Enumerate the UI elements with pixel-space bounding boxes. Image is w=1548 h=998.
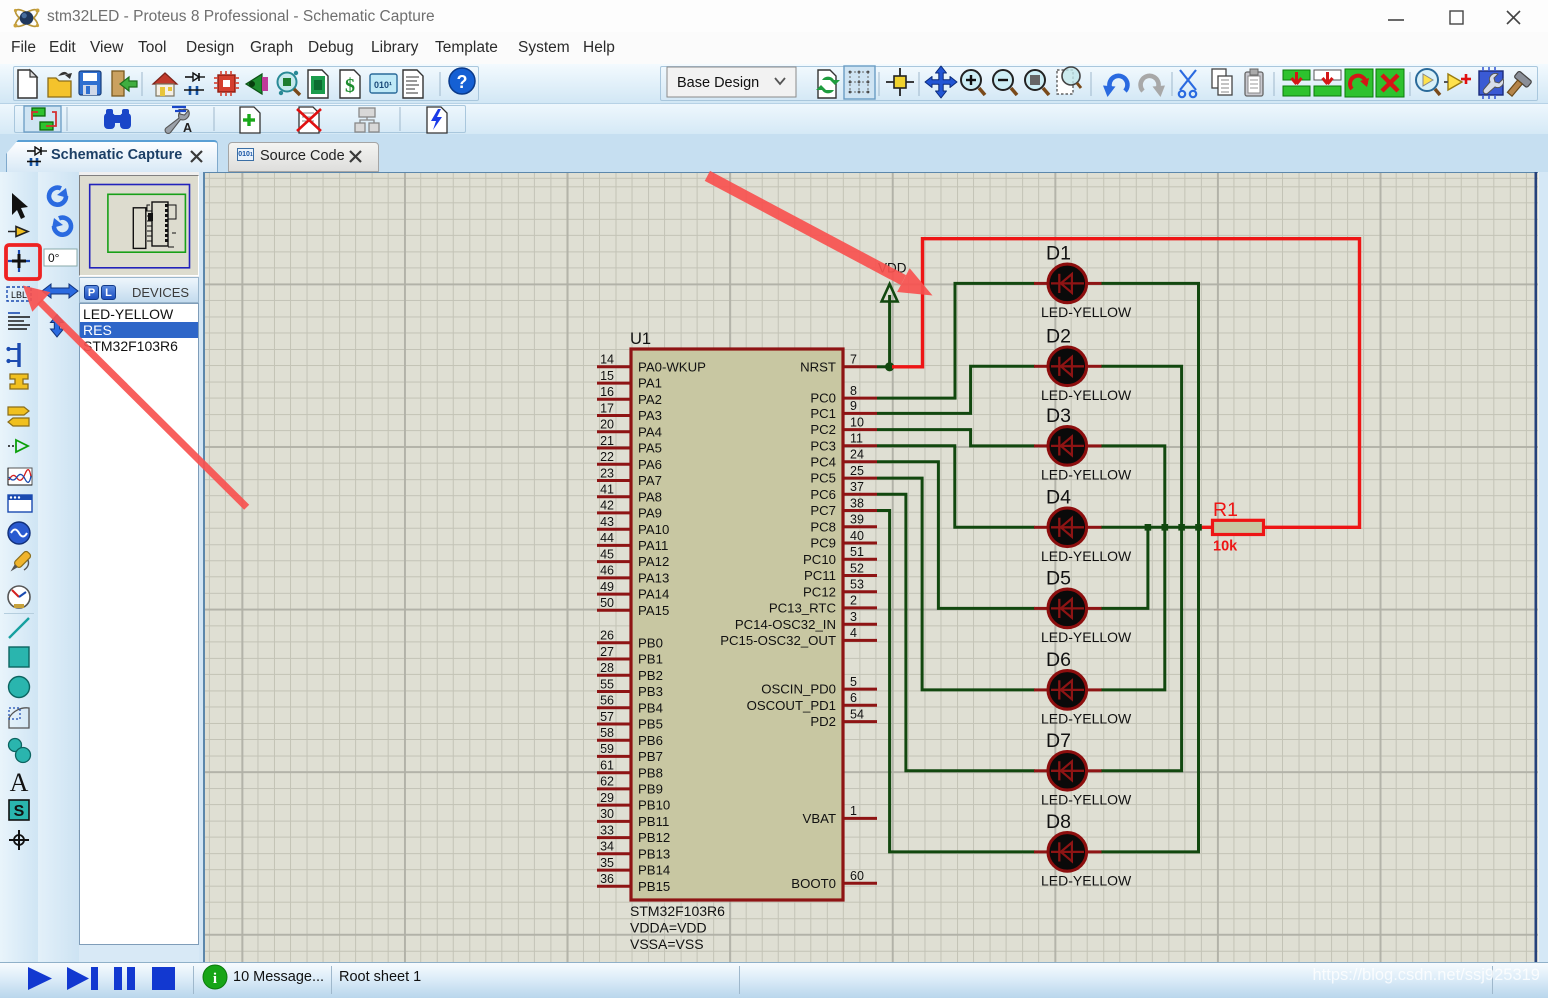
U1 pin PA2 (16): [597, 385, 662, 407]
wire D4 anode to R1 node row: [1101, 526, 1201, 529]
U1 pin PD2 (54): [810, 707, 877, 729]
preview window: [79, 175, 199, 276]
U1 pin PB1 (27): [597, 645, 663, 667]
left mode toolbar: [0, 172, 38, 962]
U1 pin NRST (7): [800, 353, 877, 375]
U1 pin PC3 (11): [810, 432, 877, 454]
U1 pin PA4 (20): [597, 418, 662, 440]
U1 pin PC8 (39): [810, 513, 877, 535]
LED D7 (LED-YELLOW): [1034, 730, 1132, 808]
junction node at x=1198.5: [1195, 524, 1202, 531]
U1 pin PB2 (28): [597, 661, 663, 683]
U1 pin PB14 (35): [597, 856, 670, 878]
resistor R1 10k: [1201, 499, 1264, 555]
power symbol VDD: [878, 261, 907, 367]
U1 pin PC9 (40): [810, 529, 877, 551]
wire D1-node: [1101, 283, 1199, 527]
U1 pin BOOT0 (60): [791, 869, 877, 891]
tab bar: [0, 134, 1548, 172]
U1 pin PB6 (58): [597, 726, 663, 748]
U1 pin PC10 (51): [803, 545, 877, 567]
U1 pin PA14 (49): [597, 580, 669, 602]
LED D3 (LED-YELLOW): [1034, 405, 1132, 483]
wire D7-node: [1101, 527, 1182, 771]
wire PC1-D2: [877, 366, 1035, 413]
U1 pin PA12 (45): [597, 547, 669, 569]
U1 pin PA15 (50): [597, 596, 669, 618]
window buttons: [1386, 8, 1536, 26]
toolbar2 icons: [0, 104, 500, 134]
U1 pin PB9 (62): [597, 775, 663, 797]
LED D5 (LED-YELLOW): [1034, 567, 1132, 645]
U1 pin PC15-OSC32_OUT (4): [720, 626, 877, 648]
red wire NRST node to R1 right terminal: [892, 239, 1360, 528]
U1 pin PC6 (37): [810, 480, 877, 502]
annotation arrow to junction tool: [23, 286, 249, 510]
sheet border right edge: [1535, 172, 1538, 962]
U1 pin PC7 (38): [810, 496, 877, 518]
toolbar row 1: [0, 64, 1548, 104]
orientation controls column: [38, 172, 79, 962]
U1 pin PC1 (9): [810, 399, 877, 421]
U1 pin PA10 (43): [597, 515, 669, 537]
U1 pin PC13_RTC (2): [769, 594, 877, 616]
wire PC2-D3: [877, 430, 1035, 446]
U1 pin PC11 (52): [804, 561, 877, 583]
U1 pin PA0-WKUP (14): [597, 353, 706, 375]
schematic canvas: [203, 172, 1538, 962]
LED D2 (LED-YELLOW): [1034, 325, 1132, 403]
U1 pin PC5 (25): [810, 464, 877, 486]
wire D2-node: [1101, 366, 1182, 527]
LED D8 (LED-YELLOW): [1034, 811, 1132, 889]
LED D4 (LED-YELLOW): [1034, 486, 1132, 564]
U1 pin PC2 (10): [810, 415, 877, 437]
U1 pin PB12 (33): [597, 823, 670, 845]
U1 pin PB10 (29): [597, 791, 670, 813]
wire D3-node: [1101, 446, 1165, 527]
U1 pin PA9 (42): [597, 499, 662, 521]
wire PC5-D6: [877, 478, 1035, 690]
menu bar: [0, 32, 1548, 64]
window top edge: [0, 0, 1548, 1]
wire PC6-D7: [877, 494, 1035, 771]
status bar: [0, 962, 1548, 998]
U1 pin PB15 (36): [597, 872, 670, 894]
U1 pin VBAT (1): [803, 804, 877, 826]
U1 pin PB4 (56): [597, 694, 663, 716]
U1 pin OSCIN_PD0 (5): [761, 675, 877, 697]
U1 pin PB5 (57): [597, 710, 663, 732]
toolbar1 icons: [0, 64, 1548, 104]
wire D6-node: [1101, 527, 1165, 690]
Base Design combo: [667, 67, 796, 97]
junction NRST/VDD node: [885, 362, 894, 371]
U1 pin OSCOUT_PD1 (6): [747, 691, 877, 713]
U1 pin PC0 (8): [810, 384, 877, 406]
wire PC0-D1: [877, 283, 1035, 398]
chip U1 STM32F103R6: [630, 330, 843, 952]
U1 pin PA7 (23): [597, 466, 662, 488]
U1 pin PA3 (17): [597, 401, 662, 423]
U1 pin PA11 (44): [597, 531, 668, 553]
wire PC7-D8: [877, 511, 1035, 852]
U1 pin PB8 (61): [597, 759, 663, 781]
U1 pin PA1 (15): [597, 369, 662, 391]
U1 pin PC14-OSC32_IN (3): [735, 610, 877, 632]
U1 pin PB11 (30): [597, 807, 669, 829]
annotation arrow to VDD junction: [705, 171, 933, 296]
wire PC3-D4: [877, 446, 1035, 528]
wire D8-node: [1101, 527, 1199, 852]
U1 pin PA5 (21): [597, 434, 662, 456]
U1 pin PC4 (24): [810, 448, 877, 470]
wire PC4-D5: [877, 462, 1035, 609]
junction node at x=1147.9: [1145, 524, 1152, 531]
U1 pin PA13 (46): [597, 564, 669, 586]
junction node at x=1164.8: [1162, 524, 1169, 531]
U1 pin PB13 (34): [597, 840, 670, 862]
wire NRST to VDD junction: [877, 365, 892, 368]
U1 pin PB0 (26): [597, 629, 663, 651]
red highlight box around junction-dot tool: [6, 245, 40, 279]
devices panel: [79, 277, 199, 303]
LED D1 (LED-YELLOW): [1034, 242, 1132, 320]
U1 pin PA6 (22): [597, 450, 662, 472]
wire D5-node: [1101, 527, 1148, 608]
U1 pin PC12 (53): [803, 578, 877, 600]
title bar: [0, 0, 1548, 32]
toolbar row 2: [0, 104, 1548, 134]
LED D6 (LED-YELLOW): [1034, 649, 1132, 727]
U1 pin PA8 (41): [597, 483, 662, 505]
U1 pin PB7 (59): [597, 742, 663, 764]
junction node at x=1181.6: [1178, 524, 1185, 531]
U1 pin PB3 (55): [597, 677, 663, 699]
